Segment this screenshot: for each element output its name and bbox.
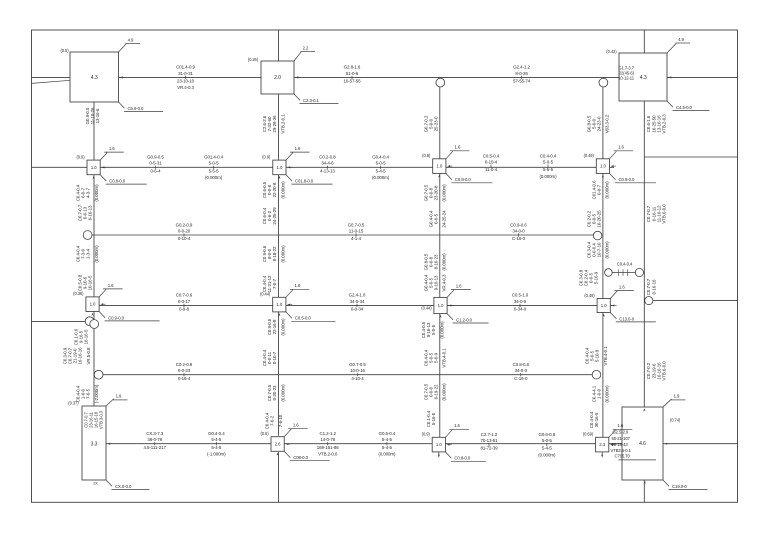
svg-text:G01.4-0.4: G01.4-0.4: [204, 155, 224, 160]
arrow into U3 right edge: [668, 76, 671, 78]
svg-text:C0.9-0.0: C0.9-0.0: [108, 315, 125, 320]
node N62 row-6 col-2: [271, 437, 284, 452]
svg-text:(0.000m): (0.000m): [439, 321, 444, 339]
svg-text:1.6: 1.6: [618, 145, 624, 150]
leader 1.9 of B1: [106, 399, 114, 406]
svg-text:C01.8-0.0: C01.8-0.0: [295, 179, 314, 184]
svg-text:G0.4-0.4: G0.4-0.4: [372, 155, 389, 160]
svg-text:1.6: 1.6: [454, 423, 460, 428]
svg-text:1.0: 1.0: [90, 302, 96, 307]
svg-text:G0.4-0.4: G0.4-0.4: [208, 431, 225, 436]
svg-text:8-10-23: 8-10-23: [433, 254, 438, 269]
svg-text:5-0-5: 5-0-5: [542, 438, 553, 443]
wire row-1 tank4.3 to tank2.0: [119, 76, 262, 78]
svg-text:C0.2-0.9: C0.2-0.9: [176, 362, 193, 367]
svg-text:7-0-7: 7-0-7: [272, 278, 277, 289]
wire row-3 main: [92, 234, 594, 236]
svg-text:22-20-8: 22-20-8: [272, 182, 277, 197]
node N63 row-6 col-3: [432, 437, 445, 452]
wire row-2 main: [32, 166, 615, 168]
svg-text:G0.2-0.9: G0.2-0.9: [176, 222, 193, 227]
svg-text:G0.7-0.5: G0.7-0.5: [348, 222, 365, 227]
svg-text:14-0-78: 14-0-78: [320, 437, 335, 442]
svg-text:4.9: 4.9: [678, 37, 684, 42]
svg-text:30-16-5: 30-16-5: [594, 412, 599, 427]
svg-text:13-16-6: 13-16-6: [95, 108, 100, 123]
tank U2 2.0 top-middle: [261, 61, 294, 94]
svg-text:51-0-6: 51-0-6: [346, 71, 359, 76]
svg-text:1.6: 1.6: [619, 284, 625, 289]
svg-text:(0.000m): (0.000m): [94, 245, 99, 263]
node N23 row-2 col-3: [433, 159, 446, 174]
svg-text:0-0-34: 0-0-34: [351, 306, 364, 311]
svg-text:VTB.4-0.1: VTB.4-0.1: [442, 348, 447, 368]
node N43 row-4 col-3: [434, 297, 447, 313]
svg-text:2.3: 2.3: [599, 442, 605, 447]
svg-text:VTB.4-0.1: VTB.4-0.1: [603, 346, 608, 366]
wire column-5 main: [643, 101, 645, 407]
svg-text:C19.0-0: C19.0-0: [672, 484, 687, 489]
svg-text:10-12-11: 10-12-11: [618, 76, 635, 81]
wire right branch y=300.6: [653, 300, 737, 302]
svg-text:7-6-10: 7-6-10: [278, 414, 283, 427]
svg-text:C-16-0: C-16-0: [514, 376, 528, 381]
svg-text:5-4-5: 5-4-5: [382, 445, 393, 450]
node N21 row-2 col-1: [87, 160, 100, 175]
tank B1 3.3 bottom-left: [82, 406, 106, 480]
svg-text:5-4-5: 5-4-5: [211, 437, 222, 442]
svg-text:5-0-5: 5-0-5: [376, 161, 387, 166]
svg-text:36-0-78: 36-0-78: [147, 437, 162, 442]
svg-text:5-0-5: 5-0-5: [431, 324, 436, 335]
svg-text:1.0: 1.0: [436, 442, 442, 447]
svg-text:(0.000m): (0.000m): [280, 384, 285, 402]
svg-text:0-0-23: 0-0-23: [178, 368, 191, 373]
svg-text:11-0-4: 11-0-4: [485, 167, 498, 172]
svg-text:(0.000m): (0.000m): [372, 175, 390, 180]
valve circle row-1 col-4: [599, 78, 608, 87]
node N41 row-4 col-1: [86, 297, 99, 312]
node N22 row-2 col-2: [273, 160, 286, 175]
svg-text:10-16-5: 10-16-5: [88, 275, 93, 290]
wire row-1 tank4.3r to border: [667, 76, 738, 78]
svg-text:(-1.000m): (-1.000m): [207, 451, 226, 456]
svg-text:VR.4-0.3: VR.4-0.3: [177, 85, 194, 90]
svg-text:1-3-4: 1-3-4: [86, 248, 91, 259]
svg-text:1.0: 1.0: [436, 164, 442, 169]
wire column-3 main: [439, 78, 441, 438]
svg-text:(0.9): (0.9): [262, 154, 271, 159]
svg-text:29-26-36: 29-26-36: [272, 115, 277, 133]
svg-text:(0.000m): (0.000m): [280, 245, 285, 263]
svg-text:C1.2-0.0: C1.2-0.0: [456, 317, 473, 322]
svg-text:C0.4-0.4: C0.4-0.4: [540, 153, 557, 158]
svg-text:70-13-51: 70-13-51: [480, 438, 498, 443]
svg-text:16-16-5: 16-16-5: [84, 329, 89, 344]
svg-text:2X: 2X: [93, 481, 98, 486]
svg-text:5-0-5: 5-0-5: [209, 161, 220, 166]
wire column-5 above tank 4.3 right: [643, 30, 645, 53]
svg-text:(0.6): (0.6): [260, 431, 269, 436]
svg-text:1.0: 1.0: [601, 303, 607, 308]
svg-text:4.9: 4.9: [128, 38, 134, 43]
svg-text:1.6: 1.6: [295, 283, 301, 288]
svg-text:0-9-8: 0-9-8: [179, 306, 190, 311]
svg-text:7-6-2: 7-6-2: [270, 415, 275, 426]
svg-text:C0.5-0.4: C0.5-0.4: [483, 153, 500, 158]
svg-text:(0.5): (0.5): [60, 48, 69, 53]
svg-text:0-0-17: 0-0-17: [178, 299, 191, 304]
svg-text:0-10-4: 0-10-4: [485, 159, 498, 164]
leader C19.0-0 of B2: [663, 480, 669, 486]
leader C4.5-0.0 of U3: [667, 101, 673, 107]
svg-text:5-10-9: 5-10-9: [595, 349, 600, 362]
svg-text:34-0-34: 34-0-34: [350, 299, 365, 304]
svg-text:1.6: 1.6: [456, 283, 462, 288]
svg-text:(0.74): (0.74): [670, 418, 681, 423]
svg-text:4-10-4: 4-10-4: [351, 376, 364, 381]
svg-text:0-16-4: 0-16-4: [178, 376, 191, 381]
node N24 row-2 col-4: [596, 159, 609, 174]
svg-text:0-20-23: 0-20-23: [272, 385, 277, 400]
svg-text:VTB3.6-0.1: VTB3.6-0.1: [611, 448, 632, 453]
svg-text:57-55-74: 57-55-74: [513, 78, 531, 83]
wire column-2 above tank 2.0: [278, 30, 280, 61]
svg-text:C13.0-0: C13.0-0: [619, 316, 634, 321]
svg-text:C0.8-0.0: C0.8-0.0: [109, 179, 126, 184]
wire row-4 main: [99, 304, 614, 306]
svg-text:81-72-39: 81-72-39: [480, 446, 498, 451]
svg-text:5-16-5: 5-16-5: [431, 412, 436, 425]
svg-text:G2.5-2.9: G2.5-2.9: [613, 429, 629, 434]
svg-text:G0.6-0.4: G0.6-0.4: [379, 431, 396, 436]
svg-text:VTB.2-0.3: VTB.2-0.3: [662, 114, 667, 134]
svg-text:34-4-6: 34-4-6: [321, 161, 334, 166]
svg-text:4.6: 4.6: [639, 441, 646, 447]
svg-text:34-0-0: 34-0-0: [512, 228, 525, 233]
svg-text:50-21-107: 50-21-107: [612, 436, 631, 441]
wire row-1 tank2.0 to tank4.3r: [294, 76, 619, 78]
svg-text:1.0: 1.0: [600, 164, 606, 169]
svg-text:VTB.2-0.1: VTB.2-0.1: [280, 114, 285, 134]
svg-text:(0.000m): (0.000m): [94, 184, 99, 202]
svg-text:G2.4-1.0: G2.4-1.0: [349, 293, 366, 298]
svg-text:4.3: 4.3: [91, 75, 98, 81]
svg-text:0-10-7: 0-10-7: [272, 351, 277, 364]
svg-text:5-4-5: 5-4-5: [382, 437, 393, 442]
leader 1.9 of B2: [663, 399, 672, 407]
svg-text:1.0: 1.0: [276, 165, 282, 170]
svg-text:VR.5-0.8: VR.5-0.8: [86, 347, 91, 364]
svg-text:24-23-0: 24-23-0: [596, 116, 601, 131]
svg-text:25-23-0: 25-23-0: [433, 116, 438, 131]
svg-text:(0.9): (0.9): [422, 432, 431, 437]
svg-text:(0.69): (0.69): [583, 432, 594, 437]
node N42 row-4 col-2: [273, 297, 286, 312]
wire short branch at node J10: [606, 272, 644, 274]
svg-text:(-2.000m): (-2.000m): [94, 384, 99, 403]
svg-text:5-4-5: 5-4-5: [211, 445, 222, 450]
arrow into U1 right edge: [120, 76, 123, 78]
svg-text:G2.8-1.6: G2.8-1.6: [344, 65, 361, 70]
svg-text:G0.9-0.5: G0.9-0.5: [147, 155, 164, 160]
wire row-6 main: [106, 443, 622, 445]
svg-text:(0.000m): (0.000m): [442, 184, 447, 202]
svg-text:CX.0-0.0: CX.0-0.0: [115, 484, 132, 489]
wire right partition y=157: [644, 156, 737, 158]
svg-text:(0.000m): (0.000m): [539, 174, 557, 179]
valve circle right branch: [645, 297, 653, 305]
leader C5.6-0.0 of U1: [119, 102, 125, 108]
svg-text:C2.3-0.1: C2.3-0.1: [303, 98, 320, 103]
svg-text:10-57-56: 10-57-56: [343, 78, 361, 83]
svg-text:1.0: 1.0: [438, 303, 444, 308]
leader CX.0-0.0 of B1: [106, 480, 112, 486]
svg-text:6-19-22: 6-19-22: [433, 384, 438, 399]
valve circle row-4 left a: [85, 317, 94, 326]
svg-text:G0.6-0.6: G0.6-0.6: [538, 432, 555, 437]
valve circle row-1 col-3: [436, 78, 445, 87]
svg-text:8-18-22: 8-18-22: [272, 246, 277, 261]
svg-text:(0.000m): (0.000m): [280, 318, 285, 336]
wire row-4 left segment to border: [32, 320, 92, 322]
arrow into B1 right edge: [107, 443, 110, 445]
valve circle row-4 left b: [90, 320, 99, 329]
svg-text:(0.49): (0.49): [584, 153, 595, 158]
svg-text:VR.4-0.3: VR.4-0.3: [442, 274, 447, 291]
svg-text:VTB.6-0.0: VTB.6-0.0: [662, 361, 667, 381]
node N44 row-4 col-4: [597, 299, 610, 313]
svg-text:5-5-5: 5-5-5: [209, 168, 220, 173]
svg-text:0-6-4: 0-6-4: [151, 168, 162, 173]
svg-text:(0.42): (0.42): [606, 49, 617, 54]
tank B2 4.6 bottom-right: [622, 407, 663, 480]
svg-text:C0.8-0.6: C0.8-0.6: [513, 362, 530, 367]
svg-text:8-0-26: 8-0-26: [515, 71, 528, 76]
svg-text:(0.9): (0.9): [76, 154, 85, 159]
wire column-1 main x=94: [93, 102, 95, 406]
svg-text:C0.8-0.0: C0.8-0.0: [619, 177, 636, 182]
svg-text:5-4-5: 5-4-5: [542, 446, 553, 451]
svg-text:(0.000m): (0.000m): [205, 175, 223, 180]
wire row-1 border to tank 4.3: [32, 76, 71, 78]
svg-text:16-16-16: 16-16-16: [78, 347, 83, 365]
svg-text:1.9: 1.9: [674, 394, 680, 399]
svg-text:3.3: 3.3: [91, 441, 98, 447]
svg-text:31-0-31: 31-0-31: [178, 71, 193, 76]
tank U3 4.3 top-right: [619, 53, 667, 101]
svg-text:6-16-13: 6-16-13: [88, 205, 93, 220]
svg-text:(0.9): (0.9): [422, 153, 431, 158]
svg-text:G2.4-1.2: G2.4-1.2: [513, 65, 530, 70]
svg-text:(0.000m): (0.000m): [442, 383, 447, 401]
svg-text:(0.000m): (0.000m): [442, 253, 447, 271]
svg-text:4-3-7: 4-3-7: [86, 187, 91, 198]
svg-text:4-1-4: 4-1-4: [351, 236, 362, 241]
svg-text:1.6: 1.6: [455, 145, 461, 150]
svg-text:7-6-5: 7-6-5: [86, 388, 91, 399]
svg-text:24-25-29: 24-25-29: [272, 207, 277, 225]
svg-text:1.6: 1.6: [295, 146, 301, 151]
svg-text:5-16-9: 5-16-9: [594, 271, 599, 284]
svg-text:(0.000m): (0.000m): [378, 451, 396, 456]
svg-text:C1.2-1.2: C1.2-1.2: [320, 431, 337, 436]
svg-text:22-16-8: 22-16-8: [272, 319, 277, 334]
valve circle row-5 right end: [592, 370, 601, 379]
svg-text:5-0-5: 5-0-5: [543, 159, 554, 164]
svg-text:1.6: 1.6: [109, 146, 115, 151]
node N64 row-6 col-4: [596, 437, 609, 452]
svg-text:10-20-25: 10-20-25: [596, 210, 601, 228]
leader C2.3-0.1 of U2: [294, 94, 300, 100]
svg-text:0-10-4: 0-10-4: [178, 236, 191, 241]
svg-text:0-0-20: 0-0-20: [178, 228, 191, 233]
svg-text:0-5-31: 0-5-31: [149, 161, 162, 166]
svg-text:1-0-0: 1-0-0: [596, 388, 601, 399]
tank U1 4.3 top-left: [70, 52, 119, 102]
svg-text:C705.70: C705.70: [615, 454, 631, 459]
svg-text:10-0-16: 10-0-16: [350, 368, 365, 373]
svg-text:169-161-86: 169-161-86: [317, 445, 340, 450]
svg-text:0-0-7: 0-0-7: [596, 184, 601, 195]
svg-text:C01.4-0.9: C01.4-0.9: [176, 65, 195, 70]
svg-text:23-10-10: 23-10-10: [177, 78, 195, 83]
svg-text:1.0: 1.0: [91, 165, 97, 170]
svg-text:(0.000m): (0.000m): [605, 385, 610, 403]
arrow up into B2 bottom: [643, 408, 645, 411]
svg-text:C-16-0: C-16-0: [512, 236, 526, 241]
svg-text:5-4-5: 5-4-5: [376, 168, 387, 173]
wire row-5 main: [103, 374, 592, 376]
svg-text:4-13-13: 4-13-13: [320, 168, 335, 173]
valve circle row-3 right end: [593, 231, 602, 240]
svg-text:24-25-24: 24-25-24: [442, 210, 447, 228]
svg-text:11-0-15: 11-0-15: [349, 228, 364, 233]
svg-text:9-10-13: 9-10-13: [433, 275, 438, 290]
svg-text:C4.5-0.0: C4.5-0.0: [676, 105, 693, 110]
svg-text:G0.7-0.5: G0.7-0.5: [349, 362, 366, 367]
svg-text:C0.7-0.6: C0.7-0.6: [176, 293, 193, 298]
svg-text:5-0-9: 5-0-9: [433, 352, 438, 363]
svg-text:VTB.3-0.0: VTB.3-0.0: [99, 410, 104, 429]
svg-text:(0.000m): (0.000m): [280, 181, 285, 199]
svg-text:(0.000m): (0.000m): [605, 241, 610, 259]
leader 4.9 of U3: [667, 43, 676, 53]
valve circle branch right: [635, 268, 643, 276]
svg-text:VTB.2-0.0: VTB.2-0.0: [318, 451, 338, 456]
svg-text:C0.4-0.4: C0.4-0.4: [617, 261, 633, 266]
svg-text:1.6: 1.6: [108, 283, 114, 288]
svg-text:C0.9-0.6: C0.9-0.6: [510, 222, 527, 227]
svg-text:(0.000m): (0.000m): [538, 452, 556, 457]
wire row-6 tank4.6 to border: [663, 443, 738, 445]
svg-text:0-34-0: 0-34-0: [514, 306, 527, 311]
svg-text:(0.49): (0.49): [584, 293, 595, 298]
wire column-2 to bottom border: [278, 452, 280, 502]
svg-text:C08-0.0: C08-0.0: [293, 455, 308, 460]
arrow into B2 right edge: [664, 443, 667, 445]
svg-text:10-7-10: 10-7-10: [596, 242, 601, 257]
wire slanted inlet to tank 4.3: [32, 80, 71, 83]
wire column-4 main: [602, 78, 604, 438]
svg-text:2.2: 2.2: [303, 46, 309, 51]
svg-text:34-0-0: 34-0-0: [515, 368, 528, 373]
svg-text:4.5-111-217: 4.5-111-217: [143, 445, 166, 450]
svg-text:23-20-8: 23-20-8: [433, 185, 438, 200]
svg-text:(0.26): (0.26): [248, 57, 259, 62]
svg-text:C0.8-0.0: C0.8-0.0: [454, 456, 471, 461]
svg-text:C2.7-1.2: C2.7-1.2: [481, 432, 498, 437]
svg-text:1.6: 1.6: [293, 423, 299, 428]
svg-text:2.6: 2.6: [275, 441, 281, 446]
valve circle branch left: [605, 269, 613, 277]
svg-text:0-0-5: 0-0-5: [433, 213, 438, 224]
valve circle row-5 left end: [94, 370, 103, 379]
tick marks on short branch: [618, 269, 620, 276]
svg-text:C0.5-0.0: C0.5-0.0: [295, 316, 312, 321]
svg-text:C0.2-0.8: C0.2-0.8: [319, 155, 336, 160]
svg-text:C5.6-0.0: C5.6-0.0: [128, 106, 145, 111]
valve circle row-3 left end: [83, 231, 92, 240]
svg-text:5-5-5: 5-5-5: [543, 167, 554, 172]
svg-text:C0.8-0.0: C0.8-0.0: [455, 177, 472, 182]
wire column-5 below tank 4.6: [643, 480, 645, 502]
svg-text:(0.44): (0.44): [421, 305, 432, 310]
svg-text:1.0: 1.0: [276, 302, 282, 307]
svg-text:1.9: 1.9: [116, 394, 122, 399]
svg-text:(0.000m): (0.000m): [605, 181, 610, 199]
svg-text:59-18-43: 59-18-43: [612, 442, 629, 447]
svg-text:2.0: 2.0: [274, 75, 281, 81]
svg-text:V03.3-0.2: V03.3-0.2: [605, 114, 610, 133]
svg-text:C0.5-1.0: C0.5-1.0: [512, 293, 529, 298]
svg-text:4.3: 4.3: [640, 75, 647, 81]
svg-text:VTB.6-0.0: VTB.6-0.0: [662, 204, 667, 224]
arrow into U2 right edge: [295, 76, 298, 78]
wire column-2 main: [278, 94, 280, 436]
leader 2.2 of U2: [294, 52, 301, 61]
svg-text:34-0-0: 34-0-0: [514, 299, 527, 304]
svg-text:1.6: 1.6: [617, 423, 623, 428]
leader 4.9 of U1: [119, 44, 127, 52]
svg-text:0-16-16: 0-16-16: [651, 279, 656, 294]
svg-text:CX.3-7.3: CX.3-7.3: [146, 431, 163, 436]
